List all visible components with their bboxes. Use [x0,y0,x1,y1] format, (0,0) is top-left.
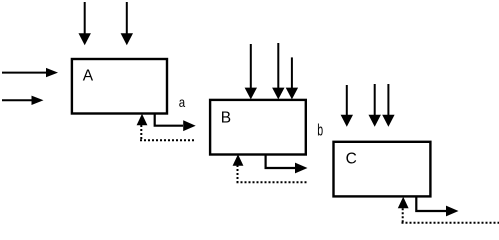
box C [334,142,431,197]
feedback arrow into B bottom [233,154,244,182]
svg-text:a: a [179,94,186,110]
feedback arrow into A bottom [137,114,148,140]
input arrow to A lower [2,96,44,105]
feedback dotted wire b [237,181,307,183]
output b of box B (elbow arrow) [266,154,308,174]
input arrow to A upper [2,68,58,77]
output a of box A (elbow arrow) [155,113,196,131]
control arrow into C middle [369,84,381,127]
feedback arrow into C bottom [398,197,409,223]
svg-text:A: A [83,68,94,85]
svg-text:B: B [221,110,231,127]
control arrow into B middle [272,43,284,99]
feedback dotted wire a [140,139,195,141]
box B [210,100,306,155]
control arrow into C right [382,84,394,127]
control arrow into C left [341,85,353,127]
control arrow into B right [286,57,298,99]
control arrow into B left [245,44,257,99]
box A [72,59,167,114]
feedback dotted wire c [402,222,499,224]
control arrow into A left [79,2,91,45]
control arrow into A right [121,2,133,45]
svg-text:b: b [317,120,323,139]
svg-text:C: C [346,151,357,168]
output c of box C (elbow arrow) [416,196,458,216]
